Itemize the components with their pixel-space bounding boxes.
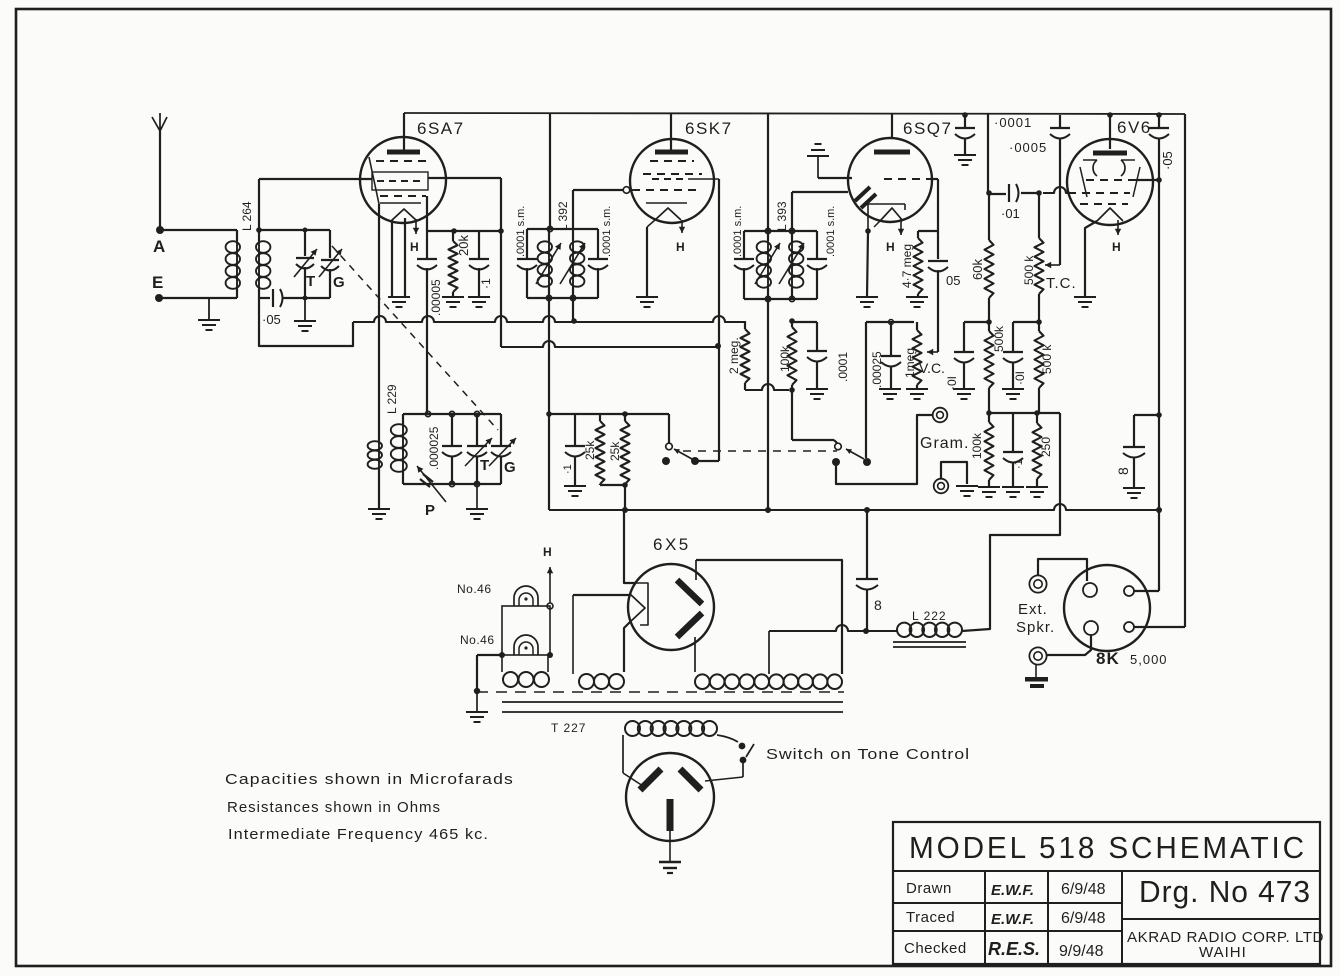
svg-text:25k: 25k: [608, 441, 622, 461]
terminal A: [156, 226, 164, 234]
svg-text:L 229: L 229: [385, 384, 399, 414]
slug arrows L393: [755, 243, 780, 284]
wire heater bus3: [548, 414, 550, 510]
svg-text:H: H: [1112, 240, 1121, 254]
trimmer G osc: [500, 414, 502, 445]
plug pin left: [640, 769, 661, 790]
wire L222 to output: [962, 413, 1060, 631]
svg-text:05: 05: [946, 273, 960, 288]
ground 6SA7 cathode: [388, 296, 410, 298]
ground 6SK7 cathode: [636, 296, 658, 298]
capacitor .1 bias: [574, 414, 576, 445]
capacitor 8 mfd first: [866, 510, 868, 578]
wire 60k feed: [987, 114, 989, 193]
6SK7 internal grids: [650, 160, 694, 162]
ext spkr jack bottom: [1029, 647, 1046, 664]
wire L392 right down to AVC bus: [572, 298, 574, 321]
wire B+ drop to L393: [767, 114, 769, 231]
resistor 25k first: [599, 414, 601, 421]
svg-text:5,000: 5,000: [1130, 652, 1168, 667]
dashed gang line switches: [683, 450, 837, 452]
resistor 60k: [988, 193, 990, 240]
6SA7 grid1 lead: [369, 157, 379, 204]
grid cap ring 6SK7: [623, 187, 630, 194]
capacitor .05 coupling: [928, 260, 948, 262]
svg-text:6V6: 6V6: [1117, 118, 1152, 137]
ground 6SQ7 cathode: [856, 296, 878, 298]
svg-text:E.W.F.: E.W.F.: [991, 882, 1034, 899]
wire 6X5 plate1 to HV winding: [696, 560, 842, 674]
wire L393 top rail: [744, 230, 817, 232]
svg-text:·0005: ·0005: [1009, 140, 1047, 155]
svg-text:6SK7: 6SK7: [685, 119, 733, 138]
svg-text:H: H: [410, 240, 419, 254]
svg-text:WAIHI: WAIHI: [1199, 944, 1247, 961]
svg-text:L 393: L 393: [775, 201, 789, 231]
ground .1 bias: [564, 485, 586, 487]
svg-text:.0001 s.m.: .0001 s.m.: [601, 206, 613, 257]
mains plug: [626, 753, 714, 841]
wire top rail caps: [962, 112, 968, 118]
svg-text:6SA7: 6SA7: [417, 119, 465, 138]
svg-text:4·7 meg: 4·7 meg: [900, 244, 914, 288]
wire HV center tap: [768, 631, 770, 674]
tone switch contact a: [739, 743, 746, 750]
gram jack tip: [933, 408, 948, 423]
svg-text:9/9/48: 9/9/48: [1059, 943, 1104, 960]
svg-text:G: G: [333, 274, 345, 291]
wire L392 bottom rail: [527, 297, 598, 299]
heater arrow 6SQ7: [900, 219, 902, 235]
svg-text:2 meg.: 2 meg.: [727, 337, 741, 374]
svg-text:100k: 100k: [970, 432, 984, 459]
resistor 250: [1033, 423, 1042, 479]
6SK7 cathode: [646, 202, 687, 204]
wire switch2 contact to gram jack: [836, 415, 932, 484]
svg-text:·0001: ·0001: [994, 115, 1032, 130]
ground at E: [208, 298, 210, 319]
slug arrows L392: [536, 243, 561, 284]
wire osc tank bottom rail: [403, 483, 501, 485]
ground .0001 bypass: [954, 154, 976, 156]
tone switch contact b: [740, 757, 747, 764]
switch1 lower contact: [662, 457, 670, 465]
svg-text:·1: ·1: [562, 464, 574, 474]
wire VC box left to switch wiper: [865, 322, 867, 458]
svg-text:·0I: ·0I: [945, 376, 959, 390]
pilot lamp No.46 lower: [514, 635, 538, 655]
wire L392 top rail: [527, 228, 598, 230]
6SK7 plate lead: [688, 178, 719, 180]
svg-text:H: H: [543, 545, 552, 559]
heater line to 6X5: [573, 594, 630, 596]
wire tank bottom loop to AVC bus: [259, 298, 353, 346]
ground osc tank: [476, 484, 478, 509]
switch2 upper contact: [835, 443, 842, 450]
6SQ7 diode plates: [855, 187, 870, 201]
resistor 100k IF: [789, 318, 795, 324]
choke core: [893, 641, 966, 643]
ground .00025: [879, 388, 901, 390]
wire A to antenna coil: [160, 229, 237, 231]
wire tone cap to TC pot: [1059, 138, 1061, 265]
coil L264 secondary: [258, 241, 260, 289]
wire screen bus2: [501, 341, 718, 347]
capacitor .1 audio: [1012, 413, 1014, 451]
capacitor 8 mfd second: [1134, 414, 1159, 416]
ground 250: [1026, 486, 1048, 488]
capacitor .0001 s.m. L392 right: [597, 229, 599, 258]
resistor 2 meg: [744, 321, 746, 329]
wire B+ top rail: [404, 113, 1185, 114]
winding HV left: [695, 674, 710, 689]
wire ext jack to pin: [1038, 559, 1087, 581]
padder P: [417, 466, 446, 502]
svg-text:500k: 500k: [992, 325, 1006, 352]
resistor 100k audio: [985, 422, 994, 480]
plug pin earth: [667, 799, 674, 831]
tube 6X5 envelope: [628, 564, 714, 650]
svg-text:Spkr.: Spkr.: [1016, 619, 1055, 636]
wire bus3 to speaker pin: [1158, 510, 1160, 591]
svg-text:.00005: .00005: [429, 279, 443, 316]
coil L393 primary: [767, 241, 769, 288]
resistor 25k second: [624, 414, 626, 421]
svg-text:.000025: .000025: [427, 426, 441, 470]
svg-text:.0001 s.m.: .0001 s.m.: [515, 206, 527, 257]
svg-text:L 264: L 264: [240, 201, 254, 231]
capacitor .0001 detector: [792, 321, 817, 323]
antenna primary coil: [236, 241, 238, 289]
wire 6SQ7 grid via .05 to VC wiper: [937, 179, 939, 259]
wire AVC bus: [353, 316, 745, 322]
svg-text:V.C.: V.C.: [919, 360, 945, 376]
svg-text:250: 250: [1039, 437, 1053, 457]
wire screen bypass rail: [427, 230, 501, 232]
svg-text:T: T: [306, 273, 315, 290]
wire B+ right vertical: [1158, 138, 1160, 510]
wire switch1 wiper to plate line: [695, 460, 719, 462]
svg-text:Gram.: Gram.: [920, 435, 969, 452]
wire gram sleeve to ground: [941, 462, 967, 484]
ground .0001 detector: [806, 388, 828, 390]
capacitor osc fixed: [451, 414, 453, 445]
switch1 wiper: [691, 457, 699, 465]
wire 6SA7 top cap: [403, 113, 405, 150]
svg-text:Intermediate Frequency 465: Intermediate Frequency 465 kc.: [228, 826, 489, 843]
capacitor .0001 s.m. L392 left: [526, 229, 528, 258]
title block box: [893, 822, 1320, 964]
wire primary right to tone switch: [717, 735, 738, 742]
resistor 500k TC: [1038, 193, 1040, 238]
svg-text:Checked: Checked: [904, 940, 967, 957]
terminal E: [155, 294, 163, 302]
svg-text:T.C.: T.C.: [1046, 275, 1077, 292]
ground 6SQ7 diode return: [807, 155, 829, 157]
ground 100k audio: [978, 486, 1000, 488]
speaker pin field-: [1084, 621, 1098, 635]
6SK7 top cap electrode: [655, 150, 688, 155]
6V6 grid lead: [1043, 187, 1068, 193]
choke L222: [897, 623, 911, 637]
ground gram: [956, 485, 978, 487]
capacitor .0005 tone: [1059, 115, 1061, 127]
winding T227 primary: [625, 721, 640, 736]
6X5 cathode: [635, 583, 648, 625]
svg-text:500 k: 500 k: [1022, 255, 1036, 285]
svg-text:100k: 100k: [778, 345, 792, 372]
trimmer G antenna: [329, 230, 331, 258]
6V6 structure: [1080, 167, 1087, 197]
svg-text:T: T: [480, 457, 489, 474]
6V6 top cap electrode: [1093, 151, 1127, 156]
svg-text:No.46: No.46: [460, 633, 495, 647]
junction lamp heater: [547, 603, 553, 609]
svg-text:Resistances shown in Ohms: Resistances shown in Ohms: [227, 799, 441, 816]
svg-text:.0001 s.m.: .0001 s.m.: [732, 206, 744, 257]
capacitor .00005: [426, 231, 428, 258]
capacitor .0001 plate bypass: [964, 115, 966, 127]
lamp box: [502, 606, 550, 655]
ground L229 primary: [368, 508, 390, 510]
capacitor .0001 s.m. L393 right: [816, 231, 818, 258]
svg-text:G: G: [504, 459, 516, 476]
heater arrow 6V6: [1117, 220, 1119, 235]
6SQ7 cathode: [867, 204, 869, 231]
plug pin right: [680, 769, 701, 790]
wire primary left to plug: [622, 735, 624, 773]
ground .1 audio: [1002, 486, 1024, 488]
tube 6SQ7 envelope: [848, 138, 932, 222]
wire E to coil bottom: [159, 297, 237, 299]
resistor 500k third: [1035, 331, 1044, 388]
svg-text:T 227: T 227: [551, 721, 586, 735]
junction 60k 500k: [986, 319, 992, 325]
6SA7 internal grids: [376, 160, 430, 162]
svg-text:L 222: L 222: [912, 609, 947, 623]
wire bus3 to 6X5: [624, 510, 635, 583]
capacitor .05 output: [1158, 115, 1160, 127]
trimmer T osc: [476, 414, 478, 445]
capacitor .1 6SA7: [478, 231, 480, 258]
svg-text:6SQ7: 6SQ7: [903, 119, 952, 138]
ground 4.7 meg: [906, 296, 928, 298]
svg-text:60k: 60k: [970, 259, 985, 280]
antenna: [152, 113, 167, 131]
svg-text:20k: 20k: [456, 235, 471, 256]
tube 6SK7 envelope: [630, 139, 714, 223]
svg-text:·1: ·1: [479, 278, 493, 289]
svg-text:L 392: L 392: [556, 201, 570, 231]
winding pilot lamps: [503, 672, 518, 687]
6SQ7 grid dashes: [884, 178, 930, 180]
capacitor .01 coupling: [989, 193, 1006, 195]
wire field rail: [769, 625, 897, 631]
6X5 plate 1: [677, 580, 702, 604]
ground .1 6SA7: [468, 296, 490, 298]
dashed gang line tuning: [332, 246, 498, 430]
svg-text:500 k: 500 k: [1040, 344, 1054, 374]
wire 6SA7 osc grid to L229: [378, 204, 380, 435]
wire VC box top rail: [866, 321, 914, 323]
speaker socket: [1064, 565, 1150, 651]
tube 6SA7 envelope: [360, 137, 446, 223]
wire to switch1 contact: [668, 414, 670, 443]
capacitor .0001 s.m. L393 left: [743, 231, 745, 258]
heater arrow 6SK7: [681, 220, 683, 233]
6X5 plate 2: [677, 613, 702, 637]
wire 6X5 to heater winding: [624, 622, 630, 672]
wire outer right vertical: [1184, 114, 1186, 627]
ground 8 mfd: [1123, 487, 1145, 489]
wire 6SK7 plate down to bus2: [718, 179, 720, 461]
svg-text:R.E.S.: R.E.S.: [988, 939, 1040, 959]
svg-text:6X5: 6X5: [653, 535, 691, 554]
wire speaker pin to outer vertical: [1134, 626, 1185, 628]
ground mains plug: [659, 861, 681, 864]
6SA7 cathode: [391, 209, 417, 221]
svg-text:.0001: .0001: [836, 352, 850, 382]
switch1 upper contact: [666, 443, 673, 450]
speaker pin voicecoil: [1124, 622, 1134, 632]
coil L229 secondary: [402, 424, 404, 472]
gram jack sleeve: [934, 479, 949, 494]
wire plug earth to ground: [669, 830, 671, 861]
wire 6SK7 top cap drop: [670, 114, 672, 150]
capacitor .01 VC: [964, 321, 989, 323]
transformer core: [502, 701, 843, 703]
winding HV right: [769, 674, 784, 689]
wire L393 grid to 6SQ7: [791, 192, 793, 231]
coil L393 secondary: [791, 241, 793, 288]
svg-text:6/9/48: 6/9/48: [1061, 910, 1106, 927]
capacitor .01 second: [1013, 321, 1039, 323]
svg-text:8: 8: [1115, 467, 1131, 475]
wire L264 top to 6SA7 grid: [256, 227, 262, 233]
svg-text:Drawn: Drawn: [906, 880, 952, 897]
svg-text:H: H: [886, 240, 895, 254]
wire lamps to ground: [477, 654, 502, 656]
svg-text:25k: 25k: [583, 440, 597, 460]
wire 6SA7 screen to bus2: [428, 177, 501, 179]
svg-text:Traced: Traced: [906, 909, 955, 926]
ground 6V6 cathode: [1074, 296, 1096, 298]
svg-text:E.W.F.: E.W.F.: [991, 911, 1034, 928]
wire tank top rail: [259, 229, 330, 231]
svg-text:·01: ·01: [1001, 206, 1020, 221]
wire 6V6 top cap: [1109, 115, 1111, 149]
capacitor .05 antenna: [259, 297, 270, 299]
ext spkr jack top: [1029, 575, 1046, 592]
svg-text:1meg: 1meg: [903, 348, 917, 378]
svg-text:Capacities shown in Microf: Capacities shown in Microfarads: [225, 771, 514, 788]
winding rectifier heater: [579, 674, 594, 689]
resistor 20k: [452, 231, 454, 241]
wire 6SQ7 top cap: [891, 113, 893, 139]
junction VC cap top: [889, 320, 894, 325]
6V6 plate dashes: [1086, 179, 1136, 181]
title block lines: [893, 870, 1320, 872]
svg-text:Switch on Tone Control: Switch on Tone Control: [766, 746, 970, 763]
svg-text:6/9/48: 6/9/48: [1061, 881, 1106, 898]
wire L392 grid to 6SK7: [572, 190, 574, 229]
svg-text:H: H: [676, 240, 685, 254]
ground transformer: [474, 688, 480, 694]
svg-text:.0001 s.m.: .0001 s.m.: [825, 206, 837, 257]
ground 20k: [442, 296, 464, 298]
speaker pin plate: [1124, 586, 1134, 596]
potentiometer 1 meg: [916, 322, 918, 330]
svg-text:8K: 8K: [1096, 649, 1120, 668]
ground ext spkr: [1035, 665, 1037, 677]
switch2 wiper: [863, 458, 871, 466]
capacitor .00025: [890, 322, 892, 355]
6V6 beam plates: [1093, 160, 1097, 176]
transformer shield dashed: [477, 691, 844, 693]
ground .01 VC: [953, 388, 975, 390]
svg-text:·0I: ·0I: [1013, 371, 1027, 385]
wire B+ drop to L392: [549, 113, 551, 229]
svg-text:A: A: [153, 237, 165, 256]
ground at tank: [303, 296, 308, 301]
heater arrow 6SA7: [415, 219, 417, 234]
pilot lamp No.46 upper: [514, 586, 538, 606]
6SA7 top cap electrode: [387, 150, 420, 155]
switch2 lower contact: [832, 458, 840, 466]
svg-text:Drg. No 473: Drg. No 473: [1139, 874, 1311, 909]
resistor 4.7 meg: [918, 230, 938, 232]
coil L392 primary: [548, 241, 550, 287]
wire 2meg to 100k bottom: [745, 384, 789, 390]
wire 100k to gram switch contact: [791, 390, 793, 440]
coil L229 primary: [378, 441, 380, 469]
svg-text:E: E: [152, 273, 163, 292]
svg-text:·05: ·05: [1160, 151, 1175, 170]
wire L392 left down to switch rail: [548, 298, 550, 414]
tube 6V6 envelope: [1067, 139, 1153, 225]
wire osc tank top rail: [403, 413, 501, 415]
ground .01 second: [1002, 388, 1024, 390]
coil L392 secondary: [572, 241, 574, 287]
svg-text:Ext.: Ext.: [1018, 601, 1048, 618]
svg-text:·1: ·1: [1013, 459, 1025, 469]
wire pin to ext jack bottom: [1047, 635, 1091, 655]
wire cathode rail: [549, 413, 669, 415]
svg-text:·05: ·05: [262, 312, 281, 327]
svg-text:.00025: .00025: [870, 351, 884, 388]
wire L393 down to bus3: [767, 299, 769, 510]
trimmer T antenna: [304, 230, 306, 256]
6V6 cathode: [1097, 208, 1123, 221]
wire L393 bottom rail: [744, 298, 817, 300]
heater arrow lamps: [549, 568, 551, 603]
svg-text:MODEL 518 SCHEMATIC: MODEL 518 SCHEMATIC: [909, 830, 1307, 865]
svg-text:No.46: No.46: [457, 582, 492, 596]
6SQ7 top cap electrode: [874, 150, 910, 155]
wire tone switch to plug: [742, 760, 744, 777]
wire 25k bottoms: [599, 484, 601, 485]
resistor 500k second: [985, 331, 994, 388]
svg-text:P: P: [425, 502, 435, 519]
ground 1 meg: [906, 388, 928, 390]
svg-text:8: 8: [874, 597, 882, 613]
wire output rail: [989, 412, 1060, 414]
speaker pin field+: [1083, 583, 1097, 597]
